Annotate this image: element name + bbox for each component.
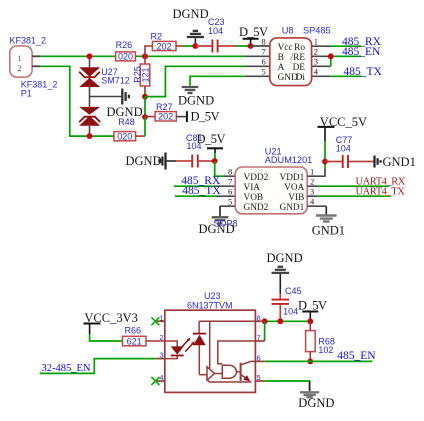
svg-text:/RE: /RE [291, 53, 306, 63]
power VCC_3V3 [84, 311, 138, 334]
wire net row2 from P1.2 down and right [41, 66, 90, 136]
wire U21 pin1 stub [307, 175, 325, 177]
power D_5V (bottom) [298, 299, 327, 322]
svg-text:VOB: VOB [244, 193, 264, 203]
svg-text:A: A [278, 63, 285, 73]
svg-text:485_EN: 485_EN [342, 46, 381, 58]
svg-text:8: 8 [257, 313, 261, 322]
P1 pin 1 stub [32, 55, 41, 57]
wire VCC_5V down [324, 141, 326, 162]
wire U23 pin3 stub [156, 358, 165, 360]
net 485_EN wire [331, 55, 361, 57]
svg-text:U8: U8 [282, 25, 294, 35]
svg-text:1: 1 [310, 167, 314, 177]
svg-text:U23: U23 [204, 291, 221, 301]
svg-text:4: 4 [159, 373, 163, 382]
svg-text:621: 621 [127, 336, 142, 346]
U23 internal rail branch [209, 321, 211, 368]
U23 internal top rail to pin8 [199, 320, 255, 322]
svg-text:GND1: GND1 [383, 155, 416, 169]
net 485_TX wire (U21 pin6) [175, 195, 216, 197]
svg-text:R66: R66 [125, 325, 142, 335]
svg-text:104: 104 [283, 306, 298, 316]
wire R25 bottom [144, 92, 146, 97]
wire U8 pin5 stub [245, 75, 270, 77]
svg-text:DGND: DGND [267, 251, 303, 265]
power D_5V (top) [239, 25, 268, 46]
wire row2 TVS bottom to R48 [90, 135, 115, 137]
wire pin3 to pin2 net [330, 56, 332, 66]
svg-text:B: B [278, 53, 284, 63]
svg-text:7: 7 [228, 177, 232, 187]
U23 light arrows [181, 338, 195, 352]
no-connect X pin1 [151, 317, 159, 325]
svg-text:DGND: DGND [178, 93, 214, 107]
wire C23 to D_5V junction [236, 45, 251, 47]
wire U21 pin3 stub [307, 195, 317, 197]
capacitor C23 [195, 40, 236, 53]
node junction R26/R2/R25 [142, 53, 148, 59]
wire U21 pin6 stub [216, 195, 235, 197]
resistor R48 [114, 132, 145, 142]
svg-text:ADUM1201: ADUM1201 [265, 155, 313, 165]
svg-text:SP485: SP485 [303, 25, 331, 35]
svg-text:DE: DE [293, 63, 306, 73]
capacitor C81 [176, 155, 215, 168]
wire U23 pin7 stub [255, 340, 264, 342]
wire U21 pin5 stub [220, 205, 235, 207]
wire U8 pin7 stub [245, 55, 270, 57]
ground GND1 below U21 pin4 [312, 206, 345, 237]
svg-text:VIB: VIB [288, 193, 304, 203]
svg-text:UART4_TX: UART4_TX [356, 187, 406, 198]
svg-text:4: 4 [314, 67, 319, 77]
wire U8 pin3 stub [312, 65, 331, 67]
wire down to R48 row [144, 117, 146, 136]
svg-text:3: 3 [314, 57, 318, 67]
svg-text:3: 3 [310, 187, 314, 197]
ground DGND above C23 [173, 7, 209, 46]
net 485_TX wire [331, 75, 362, 77]
U23 internal photodiode [193, 321, 207, 374]
svg-text:C45: C45 [285, 286, 302, 296]
ground DGND bottom right [298, 381, 334, 410]
wire U23 pin5 stub [255, 380, 264, 382]
svg-text:1: 1 [17, 53, 21, 63]
svg-text:VDD1: VDD1 [280, 173, 305, 183]
svg-text:202: 202 [158, 112, 173, 122]
node junction D_5V/R68 [307, 318, 313, 324]
svg-text:485_EN: 485_EN [337, 350, 376, 362]
node junction pin8 [262, 318, 268, 324]
wire U8 pin1 stub [312, 45, 331, 47]
svg-text:6: 6 [262, 57, 266, 67]
U23 enable line from pin7 [218, 341, 256, 364]
U23 internal LED [165, 341, 184, 359]
svg-text:5: 5 [257, 373, 261, 382]
svg-text:GND2: GND2 [244, 203, 269, 213]
U23 internal AND gate [222, 365, 236, 378]
node junction VCC/C77 [322, 159, 328, 165]
svg-text:DGND: DGND [126, 154, 162, 168]
svg-text:5: 5 [262, 67, 266, 77]
ground DGND right of U27 mid [90, 89, 143, 119]
svg-text:485_TX: 485_TX [344, 66, 383, 78]
ground DGND below U21 pin5 (SOP8) [199, 206, 235, 236]
node TVS bottom junction [87, 133, 93, 139]
U23 buffer to AND gate [215, 373, 223, 375]
resistor R25 (vertical) [140, 56, 150, 92]
wire VCC_3V3 to R66 [90, 334, 123, 341]
op-amp U21 ADUM1201 body [235, 167, 307, 214]
svg-text:3: 3 [159, 351, 163, 360]
svg-text:GND1: GND1 [312, 223, 345, 237]
svg-text:2: 2 [310, 177, 314, 187]
power VCC_5V [318, 115, 368, 141]
node junction R68/485_EN [307, 359, 313, 365]
svg-text:VOA: VOA [284, 183, 304, 193]
wire U21 pin2 stub [307, 185, 317, 187]
svg-text:Di: Di [296, 73, 306, 83]
P1 pin 2 stub [32, 65, 41, 67]
power D_5V (right of R27) [187, 110, 220, 124]
svg-text:020: 020 [118, 52, 133, 62]
wire R2 to DGND junction [183, 45, 195, 47]
svg-text:104: 104 [336, 143, 351, 153]
svg-text:8: 8 [228, 167, 232, 177]
wire U23 pin1 stub [156, 320, 165, 322]
op-amp U8 SP485 body [270, 38, 312, 86]
svg-text:2: 2 [159, 333, 163, 342]
svg-text:R2: R2 [151, 32, 163, 42]
svg-text:DGND: DGND [298, 396, 334, 410]
svg-text:104: 104 [208, 26, 223, 36]
svg-text:1: 1 [314, 37, 318, 47]
node TVS top junction [87, 53, 93, 59]
svg-text:D_5V: D_5V [197, 132, 226, 146]
svg-text:VDD2: VDD2 [244, 173, 269, 183]
U23 output transistor [241, 361, 256, 381]
svg-text:8: 8 [262, 37, 266, 47]
svg-text:020: 020 [117, 132, 132, 142]
net 485_RX wire [331, 45, 361, 47]
svg-text:DGND: DGND [173, 7, 209, 21]
node junction C45 [277, 318, 283, 324]
node junction R27 [142, 114, 148, 120]
svg-text:SM712: SM712 [101, 76, 130, 86]
wire row1 junction to U8 pin7 [145, 55, 245, 57]
svg-text:1: 1 [159, 313, 163, 322]
svg-text:485_TX: 485_TX [182, 185, 221, 197]
capacitor C77 [325, 155, 374, 168]
wire U23 pin8 row [265, 320, 311, 322]
wire U21 pin4 stub [307, 205, 326, 207]
power D_5V (mid) [197, 132, 226, 153]
svg-text:D_5V: D_5V [191, 110, 220, 124]
ground DGND above C45 [267, 251, 303, 294]
wire U21 pin8 stub [224, 175, 235, 177]
transistor/optocoupler U23 6N137TVM body [165, 310, 256, 392]
net 32-485_EN wire [40, 359, 156, 374]
node junction C81/D_5V [212, 158, 218, 164]
net 485_RX wire (U21 pin7) [174, 185, 216, 187]
svg-text:2: 2 [314, 47, 318, 57]
wire U21 pin7 stub [216, 185, 235, 187]
svg-text:Vcc: Vcc [278, 43, 293, 53]
wire U23 pin5 to DGND [264, 381, 309, 391]
U23 internal bottom rail [208, 380, 251, 382]
resistor R66 [123, 336, 165, 346]
svg-text:7: 7 [262, 47, 266, 57]
ground DGND left of C81 [126, 153, 177, 170]
wire pin8 junction down to pin7 [264, 321, 266, 341]
resistor R26 [116, 52, 136, 62]
TVS diode array U27 SM712 [79, 56, 100, 136]
svg-text:102: 102 [318, 345, 333, 355]
node junction pin2/pin3 [328, 53, 334, 59]
svg-text:5: 5 [228, 197, 232, 207]
wire U8 pin8 stub [251, 45, 270, 47]
no-connect X pin4 [151, 377, 159, 385]
net 485_EN wire [264, 360, 372, 362]
svg-text:6: 6 [228, 187, 232, 197]
connector P1 KF381_2 body [10, 46, 32, 77]
resistor R27 [145, 112, 187, 122]
ground DGND below U8 pin5 [178, 76, 245, 107]
capacitor C45 (vertical) [272, 294, 290, 322]
svg-text:6N137TVM: 6N137TVM [187, 300, 233, 310]
resistor R68 (vertical) [306, 321, 316, 361]
wire D_5V to junction [214, 153, 216, 161]
node junction D_5V/U8.8 [248, 43, 254, 49]
svg-text:VIA: VIA [244, 183, 261, 193]
wire U23 pin6 stub [255, 360, 264, 362]
node junction R25 bottom [142, 94, 148, 100]
svg-text:R48: R48 [118, 117, 135, 127]
svg-text:6: 6 [257, 353, 261, 362]
wire U8 pin2 stub [312, 55, 331, 57]
wire junction to R27 junction [144, 97, 146, 117]
wire row1 R26 to junction [135, 55, 145, 57]
svg-text:R27: R27 [156, 102, 173, 112]
svg-text:7: 7 [257, 333, 261, 342]
ground GND1 right of C77 [375, 155, 416, 169]
svg-text:2: 2 [17, 63, 21, 73]
wire junction down to U21 pin8 [215, 161, 224, 176]
U23 internal buffer [207, 367, 215, 380]
svg-text:R26: R26 [116, 40, 133, 50]
wire U23 pin8 stub [255, 320, 264, 322]
U23 AND output to transistor [237, 371, 241, 373]
net UART4_RX wire [318, 185, 390, 187]
wire net row1 from P1.1 to R26 [41, 55, 116, 57]
net UART4_TX wire [318, 195, 391, 197]
svg-text:KF381_2: KF381_2 [10, 36, 47, 46]
node junction DGND/C23 [193, 43, 199, 49]
wire U8 pin6 stub [245, 65, 270, 67]
svg-text:R25: R25 [133, 66, 143, 83]
svg-text:P1: P1 [21, 89, 32, 99]
svg-text:Ro: Ro [294, 43, 305, 53]
svg-text:202: 202 [157, 41, 172, 51]
wire loop to U8 pin6 [145, 66, 245, 96]
wire U8 pin4 stub [312, 75, 331, 77]
svg-text:GND1: GND1 [280, 203, 305, 213]
resistor R2 [145, 41, 183, 56]
wire pin1 up to VCC junction [324, 162, 326, 169]
svg-text:32-485_EN: 32-485_EN [42, 363, 91, 374]
wire U23 pin4 stub [156, 380, 165, 382]
svg-text:SOP8: SOP8 [214, 219, 238, 229]
